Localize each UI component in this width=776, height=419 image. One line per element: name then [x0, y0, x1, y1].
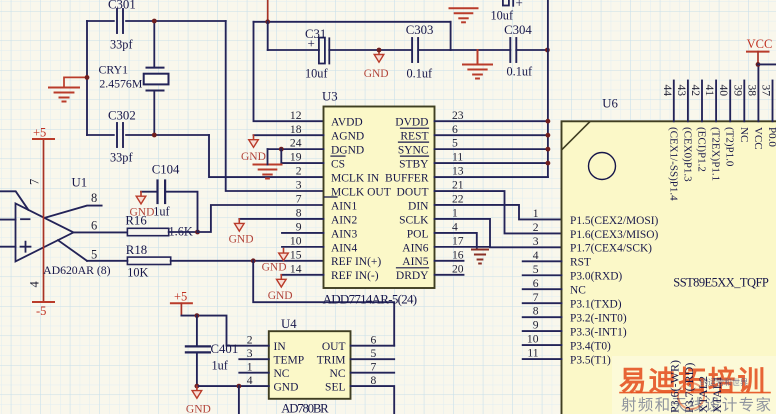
svg-text:-5: -5	[36, 304, 46, 318]
wire ground tap	[64, 77, 87, 86]
ground earth C304	[463, 50, 492, 79]
wire U4 SEL	[351, 386, 395, 414]
svg-text:ADD7714AR-5(24): ADD7714AR-5(24)	[323, 292, 418, 307]
svg-text:TEMP: TEMP	[274, 355, 305, 367]
power VCC	[747, 37, 773, 64]
junction crystal bottom	[152, 133, 157, 138]
wire GND rail U4	[197, 385, 269, 387]
wire U1 rg top	[0, 191, 28, 210]
wire U6 top pin 39	[743, 81, 745, 122]
ground port AGND	[241, 135, 266, 163]
svg-text:NC: NC	[274, 368, 290, 380]
wire DVDD to VCC bus	[435, 120, 548, 122]
svg-text:23: 23	[452, 109, 464, 122]
svg-text:U4: U4	[281, 317, 297, 331]
svg-text:R18: R18	[126, 243, 147, 257]
junction bus SYNC	[546, 147, 551, 152]
svg-text:P3.4(T0): P3.4(T0)	[570, 340, 611, 352]
power rail +5/-5 through U1	[43, 139, 45, 302]
svg-text:SCLK: SCLK	[399, 214, 429, 226]
svg-text:(CEX1/-SS)P1.4: (CEX1/-SS)P1.4	[667, 127, 679, 201]
svg-text:21: 21	[452, 179, 464, 192]
svg-text:+5: +5	[174, 290, 187, 304]
U3 overline SYNC	[399, 141, 429, 143]
svg-text:IN: IN	[274, 341, 287, 353]
svg-text:3: 3	[247, 347, 253, 360]
capacitor C301	[117, 9, 123, 33]
svg-text:P3.2(-INT0): P3.2(-INT0)	[570, 313, 627, 325]
svg-text:3: 3	[296, 179, 302, 192]
wire XTAL top to MCLK OUT	[226, 21, 324, 191]
ground earth POL	[472, 250, 488, 264]
wire C104 left lead	[141, 191, 156, 193]
svg-text:C401: C401	[211, 342, 239, 356]
wire U6 pin9 stub	[523, 330, 562, 332]
wire rail drop right	[450, 22, 452, 50]
svg-text:(ECI)P1.2: (ECI)P1.2	[696, 127, 708, 172]
wire U6 pin5 stub	[523, 274, 562, 276]
svg-text:13: 13	[452, 165, 464, 178]
wire SCLK to U6 P1.7	[435, 219, 562, 247]
svg-text:16: 16	[452, 248, 464, 261]
svg-text:5: 5	[452, 137, 458, 150]
ground port REF IN+	[262, 249, 289, 274]
wire U6 pin11 stub	[523, 358, 562, 360]
capacitor C104	[158, 181, 166, 204]
svg-text:REF IN(-): REF IN(-)	[331, 270, 379, 282]
svg-text:DIN: DIN	[408, 200, 429, 212]
svg-text:2: 2	[296, 165, 302, 178]
svg-text:C301: C301	[108, 0, 136, 12]
wire U1 output pin6	[74, 231, 128, 233]
wire XTAL bottom to MCLK IN	[209, 135, 324, 177]
svg-text:9: 9	[533, 319, 539, 332]
svg-text:AIN4: AIN4	[331, 242, 357, 254]
capacitor C303	[412, 38, 418, 62]
svg-text:GND: GND	[274, 382, 299, 394]
power stem +5 C401	[180, 303, 182, 315]
svg-text:MCLK OUT: MCLK OUT	[331, 186, 391, 198]
svg-text:24: 24	[290, 137, 302, 150]
svg-text:VCC: VCC	[747, 37, 773, 51]
junction bus DVDD	[546, 119, 551, 124]
svg-text:P0.0: P0.0	[766, 127, 776, 147]
svg-text:GND: GND	[229, 234, 254, 246]
svg-text:RST: RST	[570, 257, 591, 269]
svg-text:TRIM: TRIM	[317, 355, 346, 367]
svg-text:REF IN(+): REF IN(+)	[331, 256, 381, 268]
svg-text:38: 38	[745, 85, 758, 97]
wire U6 pin7 stub	[523, 302, 562, 304]
wire AIN3 stub	[282, 232, 324, 234]
svg-text:4: 4	[247, 374, 253, 387]
IC U6 SST89E5xx body	[562, 121, 776, 419]
svg-text:P1.5(CEX2/MOSI): P1.5(CEX2/MOSI)	[570, 215, 658, 227]
U3 overline DRDY	[397, 267, 429, 269]
ground earth DGND	[254, 165, 282, 179]
junction top rail	[265, 19, 270, 24]
junction bus STBY	[546, 161, 551, 166]
resistor R18	[127, 257, 170, 264]
svg-text:12: 12	[290, 109, 302, 122]
svg-text:10: 10	[527, 333, 539, 346]
wire C104 right lead to junction	[167, 192, 198, 232]
svg-text:AIN5: AIN5	[402, 256, 428, 268]
svg-text:P3.1(TXD): P3.1(TXD)	[570, 299, 622, 311]
svg-text:P3.3(-INT1): P3.3(-INT1)	[570, 327, 627, 339]
svg-text:C304: C304	[504, 23, 532, 37]
power +5 op-amp	[33, 126, 54, 140]
svg-text:40: 40	[717, 85, 730, 97]
power +5 C401	[171, 290, 192, 304]
svg-text:6: 6	[452, 123, 458, 136]
svg-text:8: 8	[91, 191, 97, 205]
junction C304 right	[545, 48, 550, 53]
ground earth left	[49, 88, 79, 102]
wire U4 TRIM stub	[351, 358, 395, 360]
svg-text:C303: C303	[406, 23, 434, 37]
svg-text:+5: +5	[33, 126, 46, 140]
svg-text:8: 8	[533, 305, 539, 318]
capacitor 10uf top edge	[503, 0, 513, 6]
svg-text:C31: C31	[305, 27, 326, 41]
wire U6 pin8 stub	[523, 316, 562, 318]
U6 pin1 circle	[589, 153, 616, 180]
wire U6 pin10 stub	[523, 344, 562, 346]
wire REF IN- stub	[281, 274, 323, 276]
svg-text:(T2)P1.0: (T2)P1.0	[724, 127, 736, 167]
wire U1 pin5 diagonal	[58, 240, 87, 261]
svg-text:AIN6: AIN6	[402, 242, 428, 254]
ground port AIN2	[229, 219, 254, 246]
wire U6 pin6 stub	[523, 288, 562, 290]
ground earth top edge	[450, 8, 478, 22]
wire U6 pin4 stub	[523, 260, 562, 262]
power -5 op-amp	[33, 302, 54, 318]
svg-text:P3.7(-RD): P3.7(-RD)	[682, 363, 696, 413]
wire SYNC to VCC bus	[435, 148, 548, 150]
wire REF node to AD780 OUT	[253, 261, 394, 346]
svg-text:NC: NC	[570, 285, 586, 297]
svg-text:1: 1	[452, 207, 458, 220]
svg-text:6: 6	[533, 277, 539, 290]
ground port C401	[186, 386, 211, 415]
wire U4 TEMP stub	[239, 358, 268, 360]
U3 mark under MCLK OUT	[325, 196, 338, 198]
svg-text:42: 42	[689, 85, 702, 97]
op-amp U1 triangle	[16, 203, 74, 261]
junction ground tap	[85, 75, 90, 80]
svg-text:18: 18	[290, 123, 302, 136]
junction R16 output	[195, 230, 200, 235]
junction C401 top	[195, 313, 200, 318]
wire crystal bottom rail	[87, 134, 209, 136]
wire AIN5 stub	[435, 260, 464, 262]
svg-text:5: 5	[533, 263, 539, 276]
svg-text:2: 2	[533, 221, 539, 234]
svg-text:P1.7(CEX4/SCK): P1.7(CEX4/SCK)	[570, 243, 652, 255]
svg-text:VCC: VCC	[752, 127, 764, 150]
svg-text:DVDD: DVDD	[395, 117, 428, 129]
svg-text:5: 5	[91, 248, 97, 262]
IC U4 AD780 body	[269, 331, 351, 399]
junction REF node	[251, 258, 256, 263]
wire U6 top pin 43	[687, 81, 689, 122]
svg-text:SYNC: SYNC	[398, 145, 429, 157]
wire +5 rail to U4 IN	[181, 316, 268, 346]
wire DOUT to U6 P1.6	[435, 191, 562, 233]
svg-text:NC: NC	[738, 127, 750, 142]
wire crystal loop left	[86, 21, 88, 135]
wire U6 top pin 44	[673, 81, 675, 122]
wire AIN6 stub	[435, 246, 491, 248]
op-amp plus sign	[21, 242, 31, 252]
svg-text:1: 1	[247, 360, 253, 373]
svg-text:33pf: 33pf	[110, 151, 133, 165]
svg-text:GND: GND	[268, 290, 293, 302]
wire BUFFER to VCC bus	[435, 176, 548, 178]
svg-text:20: 20	[452, 262, 464, 275]
wire POL to ground	[435, 233, 477, 249]
svg-text:0.1uf: 0.1uf	[407, 67, 434, 81]
U6 corner chamfer	[562, 122, 590, 150]
svg-text:AVDD: AVDD	[331, 117, 363, 129]
wire U4 NC stub	[239, 372, 268, 374]
svg-text:GND: GND	[262, 262, 287, 274]
watermark backdrop	[612, 356, 776, 414]
svg-text:DGND: DGND	[331, 145, 364, 157]
watermark underline	[620, 392, 770, 394]
wire DGND stub	[268, 148, 324, 150]
power stem top GND	[267, 0, 269, 22]
wire C401 bottom lead	[196, 354, 198, 387]
svg-text:4: 4	[28, 281, 42, 288]
svg-text:43: 43	[675, 85, 688, 97]
junction bus REST	[546, 133, 551, 138]
wire U1 pin5 to R18	[87, 260, 127, 262]
wire AGND stub	[254, 134, 324, 136]
svg-text:2: 2	[247, 333, 253, 346]
wire U1 pin8	[45, 206, 102, 218]
svg-text:10K: 10K	[127, 266, 148, 280]
wire CS riser	[281, 149, 323, 163]
svg-text:39: 39	[731, 85, 744, 97]
wire U4 OUT	[351, 345, 395, 347]
ground port REF IN-	[268, 275, 293, 302]
wire DGND earth stem	[267, 149, 269, 164]
svg-text:14: 14	[290, 262, 302, 275]
svg-text:GND: GND	[130, 207, 155, 219]
svg-text:P1.6(CEX3/MISO): P1.6(CEX3/MISO)	[570, 229, 658, 241]
ground port decoupling rail	[364, 50, 389, 80]
wire U6 top pin 40	[729, 81, 731, 122]
wire STBY to VCC bus	[435, 162, 548, 164]
svg-text:22: 22	[452, 193, 464, 206]
wire C401 top lead	[196, 316, 198, 346]
svg-text:POL: POL	[407, 228, 429, 240]
svg-text:CS: CS	[331, 158, 345, 170]
svg-text:7: 7	[533, 291, 539, 304]
svg-text:8: 8	[371, 374, 377, 387]
svg-text:NC: NC	[330, 368, 346, 380]
ground port C104	[130, 192, 155, 219]
junction DGND-CS	[279, 147, 284, 152]
svg-text:3: 3	[533, 235, 539, 248]
capacitor C304	[510, 38, 516, 62]
svg-text:CRY1: CRY1	[99, 63, 129, 77]
wire U4 NC right stub	[351, 372, 395, 374]
svg-text:STBY: STBY	[399, 158, 429, 170]
svg-text:7: 7	[28, 179, 42, 185]
svg-text:P3.6(-WR): P3.6(-WR)	[668, 360, 682, 413]
svg-text:11: 11	[527, 347, 538, 360]
svg-text:19: 19	[290, 151, 302, 164]
svg-text:0.1uf: 0.1uf	[507, 65, 534, 79]
svg-text:(T2EX)P1.1: (T2EX)P1.1	[710, 127, 722, 181]
svg-text:1uf: 1uf	[212, 359, 229, 373]
svg-text:1: 1	[533, 207, 539, 220]
svg-text:AIN2: AIN2	[331, 214, 357, 226]
svg-text:XTAL2: XTAL2	[696, 376, 710, 413]
wire decoupling rail	[268, 49, 548, 51]
wire DIN to U6 P1.5	[435, 205, 562, 219]
svg-text:10uf: 10uf	[491, 9, 514, 23]
wire U6 top pin 37	[772, 81, 774, 122]
svg-text:6: 6	[91, 219, 97, 233]
svg-text:U1: U1	[72, 176, 88, 190]
svg-text:33pf: 33pf	[110, 38, 133, 52]
svg-text:10: 10	[290, 234, 302, 247]
IC U3 ADD7714 body	[324, 107, 435, 289]
crystal CRY1	[144, 21, 169, 135]
svg-text:AIN3: AIN3	[331, 228, 357, 240]
svg-text:P3.0(RXD): P3.0(RXD)	[570, 271, 622, 283]
wire REST to VCC bus	[435, 134, 548, 136]
svg-text:SST89E5XX_TQFP: SST89E5XX_TQFP	[673, 275, 769, 289]
svg-text:5: 5	[371, 347, 377, 360]
svg-text:AD780BR: AD780BR	[281, 402, 329, 414]
svg-text:8: 8	[296, 207, 302, 220]
svg-text:7: 7	[296, 193, 302, 206]
svg-text:6: 6	[371, 333, 377, 346]
svg-text:17: 17	[452, 234, 464, 247]
svg-text:BUFFER: BUFFER	[385, 172, 429, 184]
svg-text:37: 37	[760, 85, 773, 97]
wire AIN2 stub	[239, 218, 323, 220]
op-amp minus sign	[21, 218, 30, 220]
svg-text:U3: U3	[322, 90, 338, 104]
svg-text:AGND: AGND	[331, 131, 364, 143]
junction GND rail	[237, 384, 242, 389]
U3 overline REST	[401, 127, 429, 129]
svg-text:GND: GND	[186, 404, 211, 415]
svg-text:GND: GND	[241, 151, 266, 163]
svg-text:2.4576M: 2.4576M	[99, 76, 142, 90]
wire AIN4 stub	[282, 246, 324, 248]
svg-text:4: 4	[533, 249, 539, 262]
svg-text:C104: C104	[152, 163, 180, 177]
svg-text:GND: GND	[364, 68, 389, 80]
wire VCC to right edge	[758, 63, 776, 65]
svg-text:10uf: 10uf	[305, 67, 328, 81]
svg-text:(CEX0)P1.3: (CEX0)P1.3	[681, 127, 693, 182]
svg-text:44: 44	[661, 85, 674, 97]
wire VCC bus	[547, 0, 549, 177]
svg-text:41: 41	[703, 85, 716, 97]
svg-text:DOUT: DOUT	[397, 186, 429, 198]
wire junction to AIN1	[198, 205, 324, 232]
wire AVDD drop to pin12	[254, 22, 324, 121]
svg-text:U6: U6	[602, 97, 618, 111]
svg-text:4: 4	[452, 221, 458, 234]
svg-text:7: 7	[371, 360, 377, 373]
capacitor C401	[186, 346, 210, 352]
junction crystal top	[152, 19, 157, 24]
svg-text:XTAL1: XTAL1	[710, 376, 724, 413]
svg-text:11: 11	[452, 151, 463, 164]
junction C401 bottom	[195, 384, 200, 389]
svg-text:REST: REST	[400, 131, 428, 143]
capacitor C302	[117, 123, 123, 147]
U3 overline STBY	[401, 155, 429, 157]
wire GND rail drop	[238, 386, 240, 414]
wire U6 top pin 42	[701, 81, 703, 122]
junction decoupling gnd	[377, 48, 382, 53]
wire U1 input minus	[0, 219, 16, 221]
watermark badge	[678, 383, 704, 409]
junction VCC	[756, 62, 761, 67]
svg-text:15: 15	[290, 248, 302, 261]
svg-text:DRDY: DRDY	[396, 270, 429, 282]
wire DRDY stub	[435, 274, 464, 276]
wire U6 top pin 41	[715, 81, 717, 122]
svg-text:SEL: SEL	[325, 382, 345, 394]
wire crystal top rail	[87, 20, 226, 22]
wire rail drop left	[267, 22, 269, 50]
svg-text:AIN1: AIN1	[331, 200, 357, 212]
svg-text:AD620AR (8): AD620AR (8)	[43, 263, 111, 277]
resistor R16	[127, 228, 168, 235]
svg-text:P3.5(T1): P3.5(T1)	[570, 354, 611, 366]
svg-text:1uf: 1uf	[153, 205, 170, 219]
svg-text:+: +	[516, 0, 523, 10]
U3 overline CS	[331, 155, 345, 157]
svg-text:9: 9	[296, 221, 302, 234]
wire U1 input plus	[0, 246, 16, 248]
wire AVDD top rail	[254, 21, 451, 23]
capacitor C31	[319, 38, 329, 64]
wire R16 to junction	[169, 231, 198, 233]
svg-text:OUT: OUT	[322, 341, 346, 353]
wire R18 to REF IN+	[171, 260, 324, 262]
svg-text:MCLK IN: MCLK IN	[331, 172, 380, 184]
svg-text:C302: C302	[108, 109, 136, 123]
wire U6 top pin 38	[757, 64, 759, 121]
